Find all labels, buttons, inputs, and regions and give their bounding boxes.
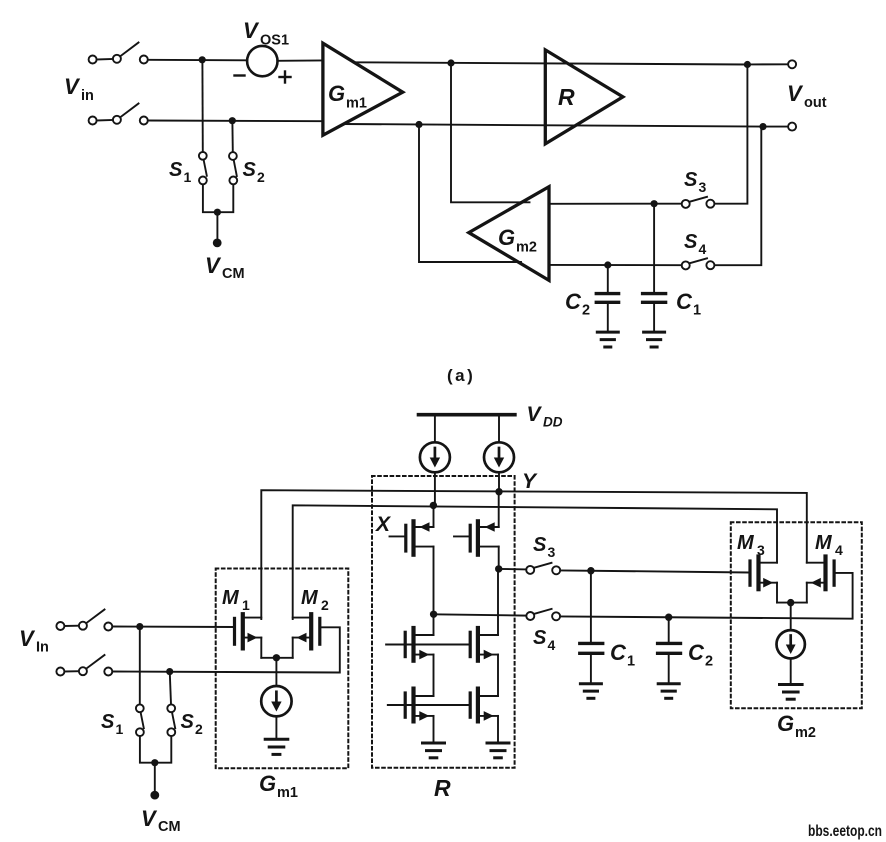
node X xyxy=(430,502,437,509)
svg-text:S: S xyxy=(533,627,547,649)
wire S3 left lead (b) xyxy=(499,568,527,571)
svg-text:2: 2 xyxy=(257,169,265,185)
svg-text:C: C xyxy=(610,640,627,665)
switch S3 (b) xyxy=(526,563,560,575)
svg-text:(a): (a) xyxy=(447,366,475,385)
wire Vout+ terminal lead xyxy=(751,63,788,65)
transistor MR1 xyxy=(390,507,434,613)
wire S1 S2 join to VCM (b) xyxy=(140,736,171,791)
node VCM junction (b) xyxy=(151,759,158,766)
svg-text:CM: CM xyxy=(158,819,181,835)
svg-text:3: 3 xyxy=(757,542,765,558)
node B xyxy=(415,121,422,128)
svg-text:2: 2 xyxy=(705,654,713,670)
label C1 (b) xyxy=(610,640,635,670)
svg-text:M: M xyxy=(815,532,833,554)
capacitor C1 (b) xyxy=(580,571,603,683)
transistor MR4 xyxy=(470,571,498,696)
svg-text:M: M xyxy=(222,587,240,609)
wire M1 M2 tail xyxy=(261,658,292,686)
wire S4 to M4 gate xyxy=(560,573,852,619)
svg-text:1: 1 xyxy=(242,597,250,613)
switch input bottom (b) xyxy=(56,655,112,676)
node A xyxy=(447,59,454,66)
svg-text:C: C xyxy=(688,640,705,665)
node C2 junction (b) xyxy=(665,614,672,621)
svg-text:X: X xyxy=(375,513,392,536)
svg-text:S: S xyxy=(684,169,698,191)
box Gm2 xyxy=(731,522,862,708)
label VCM (a) xyxy=(205,253,245,282)
svg-text:CM: CM xyxy=(222,266,245,282)
ground C2 (b) xyxy=(658,684,679,699)
label VCM (b) xyxy=(141,806,181,835)
transistor M4 xyxy=(807,557,834,603)
label M2 xyxy=(301,587,329,613)
ground C1 (b) xyxy=(580,684,601,699)
label VDD xyxy=(527,403,563,430)
wire S4 left lead (b) xyxy=(434,614,527,615)
wire Vin- to Gm1 xyxy=(148,120,323,123)
node S4 drive xyxy=(430,611,437,618)
wire Vin+ to M1 gate xyxy=(112,626,233,629)
label S2 (b) xyxy=(181,711,204,737)
label C2 (a) xyxy=(565,289,590,319)
svg-text:M: M xyxy=(301,587,319,609)
switch S2 (a) xyxy=(229,152,237,184)
svg-text:in: in xyxy=(81,88,94,104)
label Gm2 block xyxy=(777,711,816,741)
svg-text:S: S xyxy=(169,159,183,181)
node input top junction xyxy=(199,56,206,63)
wire S4 to Vout- node xyxy=(715,128,762,265)
label S3 (a) xyxy=(684,169,707,195)
wire S3 to M3 gate xyxy=(560,570,748,572)
svg-text:1: 1 xyxy=(693,303,701,319)
svg-text:m1: m1 xyxy=(346,96,367,112)
svg-text:3: 3 xyxy=(699,179,707,195)
svg-text:C: C xyxy=(676,289,693,314)
svg-text:2: 2 xyxy=(582,303,590,319)
node Vout+ terminal xyxy=(788,60,796,68)
wire Gm2 top to S3 xyxy=(549,203,682,205)
label S1 (a) xyxy=(169,159,192,185)
switch input top (b) xyxy=(56,610,112,631)
svg-text:4: 4 xyxy=(548,637,556,653)
wire Y to M1 drain and M4 drain xyxy=(261,490,807,619)
label S3 (b) xyxy=(533,534,556,560)
ground R right xyxy=(487,743,509,758)
wire M3 M4 tail xyxy=(777,603,807,631)
node tail Gm2 xyxy=(787,599,794,606)
wire bottom junction to S2 xyxy=(231,122,233,152)
svg-text:3: 3 xyxy=(548,544,556,560)
svg-text:1: 1 xyxy=(116,721,124,737)
label VOS1 xyxy=(243,18,289,49)
node tail Gm1 xyxy=(273,654,280,661)
ground Gm1 xyxy=(265,739,288,754)
current source ISS1 xyxy=(261,686,291,738)
current source ISS2 xyxy=(777,630,805,683)
capacitor C2 (a) xyxy=(596,267,618,331)
node VCM junction xyxy=(214,209,221,216)
transistor M2 xyxy=(293,614,320,658)
svg-text:V: V xyxy=(141,806,158,831)
svg-text:C: C xyxy=(565,289,582,314)
node Vout+ junction xyxy=(744,61,751,68)
transistor MR6 xyxy=(470,689,498,742)
wire S3 to Vout+ node xyxy=(715,66,748,204)
node Y xyxy=(495,488,502,495)
node VCM terminal (b) xyxy=(150,791,159,800)
node C1 junction (b) xyxy=(587,567,594,574)
node input top junction (b) xyxy=(136,623,143,630)
node VCM terminal xyxy=(213,239,222,248)
svg-text:4: 4 xyxy=(699,241,707,257)
svg-text:M: M xyxy=(737,532,755,554)
label Vout xyxy=(787,81,827,111)
wire Vin+ to VOS1 xyxy=(148,59,247,62)
wire top junction to S1 xyxy=(201,61,203,152)
svg-text:V: V xyxy=(19,626,36,651)
switch S3 (a) xyxy=(682,197,715,208)
wire bottom junction to S2 (b) xyxy=(170,673,171,704)
transistor MR3 xyxy=(386,616,469,696)
svg-text:G: G xyxy=(777,711,794,736)
op-amp R xyxy=(545,50,623,144)
switch S2 (b) xyxy=(167,704,175,736)
node input bottom junction xyxy=(229,117,236,124)
svg-text:S: S xyxy=(181,711,195,733)
label Gm1 block xyxy=(259,771,298,801)
node Vout- terminal xyxy=(788,123,796,131)
transistor MR2 xyxy=(454,493,499,567)
svg-text:DD: DD xyxy=(543,415,563,430)
wire Vout- terminal lead xyxy=(767,126,788,128)
label Gm1 xyxy=(328,81,367,112)
svg-text:G: G xyxy=(328,81,345,106)
wire S1 S2 join to VCM xyxy=(203,184,233,239)
wire Vin- to M2 gate xyxy=(112,627,339,672)
label M1 xyxy=(222,587,250,613)
node C2 top junction xyxy=(604,261,611,268)
label Vin (a) xyxy=(64,74,94,104)
svg-text:m2: m2 xyxy=(795,725,816,741)
svg-text:V: V xyxy=(527,403,543,426)
wire VOS1 to Gm1 xyxy=(278,59,323,61)
wire Gm2 bottom to S4 xyxy=(549,264,682,266)
label S2 (a) xyxy=(243,159,266,185)
svg-text:4: 4 xyxy=(835,542,843,558)
transistor M3 xyxy=(750,557,777,603)
label M3 xyxy=(737,532,765,558)
switch S4 (a) xyxy=(682,258,715,269)
ground Gm2 block xyxy=(780,685,803,700)
capacitor C1 (a) xyxy=(643,205,666,330)
wire node B to Gm2 input bottom xyxy=(419,126,521,262)
ground C2 (a) xyxy=(597,332,618,347)
op-amp Gm1 xyxy=(323,43,403,135)
label Vin (b) xyxy=(19,626,49,656)
svg-text:V: V xyxy=(787,81,804,106)
svg-text:2: 2 xyxy=(195,721,203,737)
label S4 (a) xyxy=(684,231,707,257)
label S4 (b) xyxy=(533,627,556,653)
svg-text:V: V xyxy=(243,18,260,43)
op-amp Gm2 xyxy=(469,187,549,281)
wire Gm1 out bottom to Vout xyxy=(343,124,763,127)
svg-text:OS1: OS1 xyxy=(260,33,289,49)
node Vout- junction xyxy=(759,123,766,130)
svg-text:Y: Y xyxy=(522,470,538,493)
svg-text:S: S xyxy=(533,534,547,556)
svg-text:R: R xyxy=(558,84,575,110)
svg-text:1: 1 xyxy=(184,169,192,185)
transistor M1 xyxy=(235,614,262,658)
capacitor C2 (b) xyxy=(658,617,681,682)
switch S1 (b) xyxy=(136,704,144,736)
transistor MR5 xyxy=(388,689,469,742)
label Gm2 xyxy=(498,225,537,256)
source VOS1 xyxy=(235,46,291,83)
node input bottom junction (b) xyxy=(166,668,173,675)
label C1 (a) xyxy=(676,289,701,319)
current source I2 xyxy=(484,415,514,490)
svg-text:S: S xyxy=(684,231,698,253)
box Gm1 xyxy=(216,569,349,769)
svg-text:m1: m1 xyxy=(277,785,298,801)
svg-text:S: S xyxy=(101,711,115,733)
switch input top (a) xyxy=(89,43,148,64)
svg-text:G: G xyxy=(498,225,515,250)
svg-text:bbs.eetop.cn: bbs.eetop.cn xyxy=(808,823,882,840)
ground R left xyxy=(423,743,445,758)
svg-text:m2: m2 xyxy=(516,240,537,256)
box R xyxy=(372,476,515,768)
label M4 xyxy=(815,532,843,558)
wire top junction to S1 (b) xyxy=(139,628,141,704)
svg-text:1: 1 xyxy=(627,654,635,670)
wire X to M2 drain and M3 drain xyxy=(293,505,777,619)
svg-text:In: In xyxy=(36,640,49,656)
label C2 (b) xyxy=(688,640,713,670)
svg-text:V: V xyxy=(205,253,222,278)
wire Gm1 out top to Vout xyxy=(354,62,748,64)
svg-text:S: S xyxy=(243,159,257,181)
svg-text:out: out xyxy=(804,95,827,111)
wire node A to Gm2 input top xyxy=(451,65,530,203)
switch input bottom (a) xyxy=(89,104,148,125)
current source I1 xyxy=(420,415,450,504)
node C1 top junction xyxy=(651,200,658,207)
svg-text:2: 2 xyxy=(321,597,329,613)
power VDD rail xyxy=(419,413,515,417)
node S3 drive xyxy=(495,565,502,572)
svg-text:R: R xyxy=(434,775,451,801)
svg-text:G: G xyxy=(259,771,276,796)
ground C1 (a) xyxy=(644,332,665,347)
switch S1 (a) xyxy=(199,152,207,184)
svg-text:V: V xyxy=(64,74,81,99)
label S1 (b) xyxy=(101,711,124,737)
switch S4 (b) xyxy=(526,609,560,620)
